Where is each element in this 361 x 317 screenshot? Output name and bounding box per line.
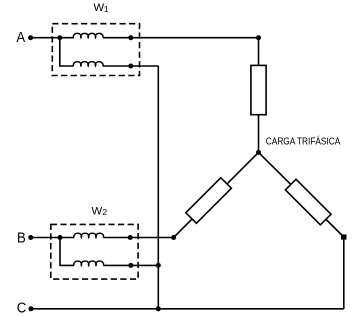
wire: square terminal down to line C (343, 237, 345, 309)
W1 current coil output dot (128, 35, 133, 40)
W1 potential coil (73, 62, 103, 66)
star point node (256, 150, 261, 155)
node A terminal dot (28, 35, 33, 40)
wire: line A terminal to W1 current coil (31, 37, 74, 39)
phase-B load resistor (186, 178, 232, 224)
wire: drop from line A to phase-A load resistor (258, 38, 260, 66)
W1 current coil (73, 33, 103, 37)
wire: phase-A resistor to star point (258, 115, 260, 153)
W2 current coil (74, 233, 104, 237)
wire: line B from W2 current coil to left load branch (103, 237, 173, 239)
wire: W1 potential coil to sense line (103, 65, 159, 67)
W2 potential coil output dot (128, 263, 133, 268)
node C terminal dot (29, 306, 34, 311)
svg-text:C: C (17, 299, 27, 316)
W2 current coil output dot (128, 235, 133, 240)
junction: sense line with line C (156, 306, 161, 311)
wire: W1 potential branch down (60, 38, 74, 66)
svg-text:1: 1 (104, 4, 109, 14)
wattmeter W2 label (92, 206, 108, 218)
wattmeter W2 dashed enclosure (51, 224, 138, 279)
wattmeter W1 dashed enclosure (52, 24, 139, 76)
wire: star point to phase-C branch (259, 152, 344, 237)
node B label (17, 229, 26, 246)
junction: line A corner above load (256, 35, 261, 40)
node: line B to load (171, 235, 176, 240)
W2 input junction (58, 235, 63, 240)
svg-text:B: B (17, 229, 26, 246)
W1 potential coil output dot (128, 64, 133, 69)
svg-text:CARGA TRIFÁSICA: CARGA TRIFÁSICA (266, 135, 341, 148)
svg-text:A: A (16, 28, 25, 45)
wire: line A from W1 current coil to load drop (103, 37, 259, 39)
svg-text:2: 2 (102, 207, 107, 217)
phase-A load resistor (251, 65, 266, 114)
wire: star point to phase-B branch (174, 152, 259, 237)
wire: line B terminal to W2 current coil (31, 237, 75, 239)
junction: sense line with W2 potential coil (156, 263, 161, 268)
wire: line C bottom run (31, 308, 344, 310)
W1 input junction (57, 35, 62, 40)
W2 potential coil (74, 261, 104, 265)
wire: W2 potential coil to sense line (103, 264, 158, 266)
svg-text:W: W (92, 206, 103, 218)
wire: potential sense line down to line C (157, 66, 159, 309)
wire: W2 potential branch down (60, 238, 74, 266)
phase-C load resistor (285, 179, 331, 225)
node: phase-C square terminal (341, 234, 347, 239)
svg-text:W: W (94, 2, 105, 14)
wattmeter W1 label (94, 2, 109, 14)
node B terminal dot (28, 235, 33, 240)
node C label (17, 299, 27, 316)
node A label (16, 28, 25, 45)
